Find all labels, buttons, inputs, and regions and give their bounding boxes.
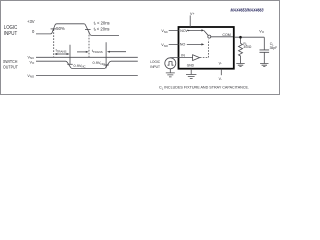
svg-text:INPUT: INPUT (150, 64, 160, 69)
svg-text:V+: V+ (185, 29, 190, 33)
svg-text:NO: NO (180, 42, 186, 46)
svg-text:V-: V- (219, 62, 222, 66)
svg-text:COM: COM (222, 33, 230, 37)
svg-text:VO: VO (259, 29, 265, 34)
dashed line from falling 50% (88, 32, 90, 57)
svg-text:0.9VNO: 0.9VNO (92, 60, 105, 66)
arrowhead tTRANS2 right-arrow (107, 51, 110, 53)
svg-text:OUTPUT: OUTPUT (3, 65, 18, 71)
square-wave glyph (168, 62, 174, 66)
0.9VNO cross tick (104, 64, 109, 66)
ground (CL) (260, 64, 268, 67)
switch arm NC to pivot (204, 31, 208, 36)
DUT box U1 (179, 27, 234, 69)
ground (RL) (236, 64, 244, 67)
wire pivot to COM and out to load node (211, 36, 264, 38)
NC contact arrowhead (201, 29, 204, 31)
resistor RL lead + zigzag (239, 38, 243, 63)
V+ supply stub (189, 15, 191, 27)
svg-text:GND: GND (187, 64, 195, 68)
svg-text:300Ω: 300Ω (243, 45, 252, 49)
svg-text:VNC: VNC (161, 29, 168, 34)
border frame (1, 1, 280, 95)
arrowhead tTRANS1 right (67, 53, 70, 55)
0.9VNC cross tick (67, 63, 72, 65)
svg-text:VNC: VNC (28, 55, 35, 60)
switch output VNO level line (36, 75, 138, 77)
V- pin stub (220, 69, 222, 75)
svg-text:SWITCH: SWITCH (3, 59, 18, 65)
svg-text:VNO: VNO (27, 74, 35, 79)
tTRANS2 left outside arrow (77, 51, 87, 53)
svg-text:V-: V- (219, 77, 222, 81)
wire IN from source (170, 57, 192, 59)
svg-text:50%: 50% (56, 26, 65, 31)
arrowhead tTRANS2 left-arrow (86, 51, 89, 53)
solid measure line t2 (105, 42, 107, 68)
driver triangle (193, 55, 200, 61)
svg-text:tTRANS: tTRANS (92, 49, 103, 54)
logic input waveform (36, 24, 119, 36)
50% cross tick rising edge (51, 28, 57, 30)
svg-text:CL INCLUDES FIXTURE AND STRAY: CL INCLUDES FIXTURE AND STRAY CAPACITANC… (159, 86, 249, 91)
svg-text:IN: IN (181, 53, 185, 57)
junction node dot (239, 36, 242, 39)
pivot circle (208, 35, 211, 38)
ground (source) (166, 73, 175, 77)
wire VNC to NC pin (169, 29, 202, 31)
ground (GND pin) (186, 75, 196, 79)
svg-text:35pF: 35pF (270, 46, 278, 50)
svg-text:tr < 20ns: tr < 20ns (94, 20, 110, 26)
wire VNO to NO pin (169, 43, 202, 45)
capacitor CL plates (260, 50, 270, 52)
tTRANS2 right outside arrow (109, 51, 126, 53)
tTRANS1 double arrow (55, 53, 68, 55)
svg-text:+3V: +3V (27, 19, 35, 24)
switch output VO waveform (36, 61, 138, 68)
switch output VNC level line (36, 56, 138, 58)
solid measure line t1 (69, 45, 71, 65)
svg-text:MAX4653/MAX4663: MAX4653/MAX4663 (231, 8, 264, 13)
arrowhead tTRANS1 left (54, 53, 57, 55)
svg-text:V+: V+ (190, 12, 195, 16)
logic input source V1 (165, 58, 176, 69)
dashed line from rising 50% (53, 29, 55, 57)
svg-text:INPUT: INPUT (4, 31, 17, 37)
GND pin stub (190, 69, 192, 75)
NO contact arrowhead (201, 43, 204, 45)
svg-text:0.9VNC: 0.9VNC (74, 63, 86, 69)
svg-text:VNO: VNO (161, 43, 168, 48)
dashed control line (200, 40, 209, 58)
svg-text:tTRANS: tTRANS (56, 49, 67, 54)
svg-text:tf < 20ns: tf < 20ns (94, 26, 110, 32)
source ground stub (169, 69, 171, 73)
capacitor CL leads (263, 37, 265, 63)
svg-text:VO: VO (29, 60, 34, 65)
50% cross tick falling edge (85, 29, 91, 31)
